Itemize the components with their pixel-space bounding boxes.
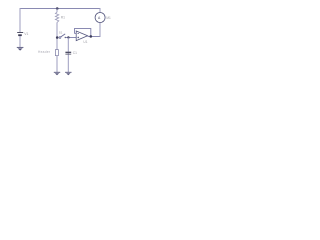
node junction output/feedback	[90, 35, 93, 38]
meter M1	[95, 13, 111, 23]
node junction middle	[56, 36, 59, 39]
node junction top	[56, 7, 59, 10]
svg-text:U1: U1	[83, 40, 87, 44]
wire header to ground	[56, 56, 58, 72]
svg-text:C1: C1	[73, 51, 77, 55]
wire C1 to ground	[67, 54, 69, 72]
connector header box	[38, 50, 58, 56]
svg-text:Header: Header	[38, 50, 51, 54]
wire feedback loop	[75, 29, 91, 37]
wire R1 to node	[56, 22, 58, 50]
node junction cap tap	[67, 36, 69, 38]
resistor R1	[55, 12, 65, 22]
svg-text:S1: S1	[59, 31, 63, 35]
ground (below C1)	[65, 72, 71, 75]
wire left rail	[19, 8, 21, 32]
wire output	[88, 36, 101, 38]
battery V1	[17, 32, 28, 36]
wire battery to ground	[19, 36, 21, 47]
wire output up to meter	[99, 22, 101, 36]
svg-text:R1: R1	[61, 16, 65, 20]
op-amp U1	[76, 31, 88, 44]
wire top input stub	[75, 33, 77, 35]
wire meter top stub	[99, 8, 101, 13]
wire top rail	[20, 8, 101, 10]
ground (below header)	[54, 72, 60, 75]
wire switch to op-amp + input	[66, 37, 76, 39]
svg-text:M1: M1	[106, 16, 111, 20]
switch S1	[59, 31, 66, 39]
wire down to C1	[67, 38, 69, 54]
svg-text:V1: V1	[24, 32, 28, 36]
ground (left)	[17, 47, 24, 50]
capacitor C1	[65, 51, 77, 55]
wire top to R1	[56, 9, 58, 13]
